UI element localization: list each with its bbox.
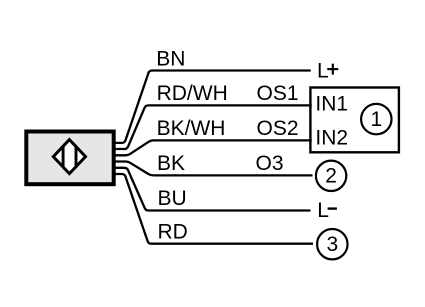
svg-text:OS2: OS2 xyxy=(257,117,299,140)
svg-text:BK/WH: BK/WH xyxy=(157,117,226,140)
svg-text:L: L xyxy=(317,199,329,222)
sensor body xyxy=(26,132,113,185)
sensor symbol right bar xyxy=(75,138,78,176)
svg-text:BN: BN xyxy=(156,47,185,70)
svg-text:BK: BK xyxy=(157,152,185,175)
wire RD xyxy=(113,174,313,244)
svg-text:BU: BU xyxy=(158,187,187,210)
wire BN xyxy=(113,71,311,143)
svg-text:1: 1 xyxy=(370,108,382,131)
svg-text:OS1: OS1 xyxy=(257,82,299,105)
svg-text:RD: RD xyxy=(158,220,188,243)
svg-text:RD/WH: RD/WH xyxy=(157,82,228,105)
svg-text:IN1: IN1 xyxy=(315,92,348,115)
svg-text:L: L xyxy=(317,60,329,83)
terminal circle 2 xyxy=(316,161,346,191)
svg-text:3: 3 xyxy=(326,233,338,256)
sensor symbol diamond xyxy=(53,140,85,174)
wire BK/WH xyxy=(113,140,312,155)
wire RD/WH xyxy=(113,105,312,149)
terminal box IN1/IN2 xyxy=(310,88,399,153)
svg-text:2: 2 xyxy=(325,165,337,188)
svg-text:IN2: IN2 xyxy=(315,127,348,150)
svg-text:O3: O3 xyxy=(256,152,284,175)
terminal circle 1 xyxy=(361,104,391,134)
wire BK xyxy=(113,162,313,176)
wire BU xyxy=(113,168,311,211)
sensor symbol left bar xyxy=(62,138,65,176)
terminal circle 3 xyxy=(317,229,347,259)
